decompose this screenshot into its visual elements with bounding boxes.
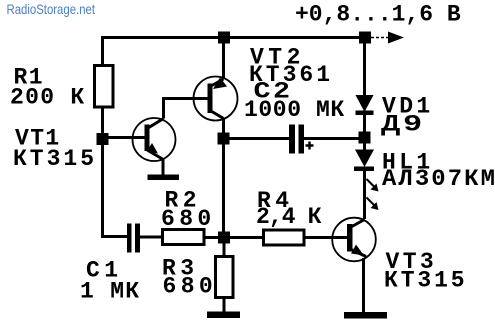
wire R4 to VT3 base [304,236,348,239]
svg-text:2,4 К: 2,4 К [256,204,322,230]
node B (VT2 collector node) [218,133,230,145]
wire node C to HL1 [363,144,366,152]
LED HL1 [354,150,379,211]
wire VT1 base lead [108,136,145,139]
transistor VT1 [133,118,176,161]
svg-text:RadioStorage.net: RadioStorage.net [7,1,96,17]
svg-text:КТ315: КТ315 [384,268,468,294]
resistor R2 [163,230,205,245]
wire VT1 emitter stem [162,158,165,175]
svg-text:+0,8...1,6 В: +0,8...1,6 В [295,2,461,28]
capacitor C1 [127,224,140,253]
wire VT2 collector to node B [222,118,225,134]
capacitor C2 [289,125,314,154]
wire left rail top (rail to R1) [101,36,104,66]
wire R3 to ground [223,298,226,314]
wire node B to C2 [230,137,290,140]
wire supply arrow stub [371,37,389,39]
svg-text:680: 680 [163,274,218,300]
svg-text:1 МК: 1 МК [80,279,140,305]
svg-text:КТ315: КТ315 [13,146,97,172]
wire VT1 collector up and over to VT2 base [164,99,209,119]
wire C1 to R2 [140,236,162,239]
svg-text:АЛ307КМ: АЛ307КМ [382,166,495,192]
wire node D down to R3 [223,244,226,258]
node C (VD1 cathode / HL1 anode) [359,132,371,144]
svg-text:1000 МК: 1000 МК [244,97,345,123]
diode VD1 [356,95,374,115]
ground VT1 emitter [148,175,180,181]
ground R3 [207,312,240,319]
wire R2 to node D [204,236,219,239]
wire VD1 to node C [363,115,366,133]
wire node B down to node D [222,145,225,233]
wire VT3 emitter stem [362,258,365,313]
wire top supply rail [101,36,365,39]
wire R1 bottom to node A [101,107,104,134]
wire HL1 to VT3 collector [363,171,366,219]
resistor R1 [95,66,114,108]
node D (R2/R3/R4 node) [218,232,230,244]
svg-text:200 К: 200 К [10,85,86,111]
transistor VT3 [332,218,376,262]
resistor R4 [264,230,305,245]
wire C2 to node C [304,137,364,140]
wire VT2 emitter to top rail [222,37,225,79]
node A (VT1 base node) [97,133,109,145]
node junction top rail / VD1 anode [359,32,371,44]
wire node D to R4 [230,236,263,239]
wire node A down left rail to C1 [103,145,128,237]
wire rail to VD1 [363,37,366,96]
ground VT3 [344,312,387,319]
node junction top rail / VT2 emitter [218,32,230,44]
transistor VT2 [194,77,238,121]
resistor R3 [216,257,234,298]
svg-text:Д9: Д9 [381,112,425,138]
